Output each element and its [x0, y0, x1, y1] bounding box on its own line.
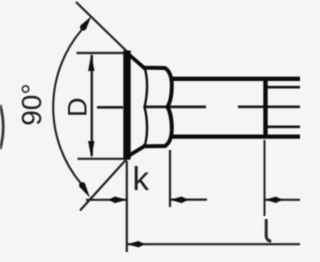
svg-text:D: D	[63, 98, 93, 118]
svg-text:k: k	[133, 160, 150, 197]
svg-text:90°: 90°	[16, 83, 47, 125]
